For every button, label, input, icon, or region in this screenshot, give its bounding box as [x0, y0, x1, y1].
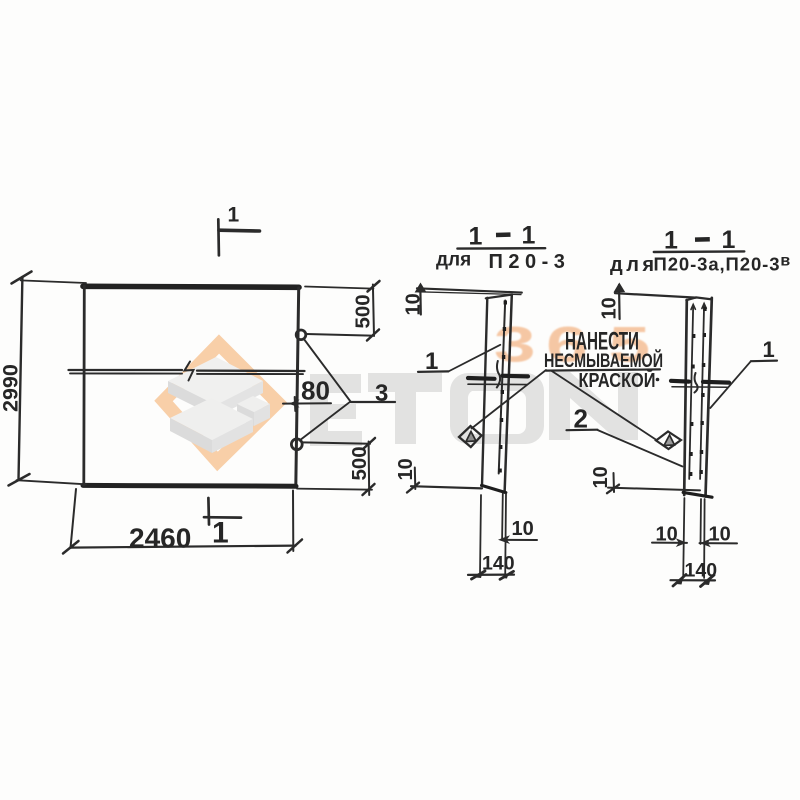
dim 500 bottom vertical dim line [368, 442, 371, 496]
dim 2990 vertical line [19, 277, 23, 480]
svg-text:для: для [436, 250, 471, 271]
strip bottom cap [482, 485, 506, 492]
loop level line top [307, 334, 372, 336]
logo inner bottom slab [170, 398, 253, 440]
right section texts [664, 227, 678, 255]
dim 10 line (middle bottom) [503, 539, 537, 541]
svg-text:1: 1 [664, 227, 678, 255]
middle section texts [469, 223, 483, 251]
lifting loop bottom [291, 439, 302, 450]
svg-text:80: 80 [301, 376, 330, 406]
bottom ext: inner line extended [501, 494, 504, 539]
inner rebar line B right [700, 304, 704, 479]
svg-text:1: 1 [522, 222, 536, 250]
svg-text:2990: 2990 [0, 364, 23, 412]
label 1 right underline [751, 360, 777, 363]
svg-text:1: 1 [425, 348, 438, 375]
joint mid thin line [468, 383, 527, 385]
svg-text:1: 1 [722, 226, 736, 254]
svg-text:П20-3: П20-3 [489, 251, 571, 273]
logo inner mid block [237, 396, 270, 412]
watermark 365 [0, 0, 1, 1]
top ext line right [615, 293, 696, 297]
strip left edge right section [684, 300, 687, 495]
panel outline top edge [83, 286, 299, 287]
text underline (nanesti block) [546, 369, 660, 370]
loop leader lines to label 3 [300, 339, 351, 441]
dim 500 bottom: loop level line [303, 442, 371, 443]
bottom-left vertical 10 line right [613, 473, 616, 492]
svg-text:140: 140 [482, 553, 515, 575]
joint right: left thick bar [671, 379, 689, 384]
strip bottom cap right [683, 492, 712, 497]
dim 500 top ticks [368, 281, 380, 292]
svg-text:1: 1 [763, 337, 775, 362]
bottom ext: right strip left edge extended [683, 498, 684, 578]
strip right outer edge [505, 295, 512, 492]
svg-text:10: 10 [709, 524, 731, 546]
inner rebar line A right [689, 305, 693, 479]
lifting loop top [296, 330, 306, 340]
label 1 left leader [448, 345, 500, 372]
strip right edge right section [706, 298, 712, 497]
bottom-left ext line middle [411, 486, 482, 488]
rebar dots right strip [689, 307, 707, 476]
watermark logo diamond [164, 344, 278, 462]
bottom ext: strip right edge extended [504, 494, 507, 576]
svg-text:П20-3а,П20-3в: П20-3а,П20-3в [654, 253, 792, 275]
svg-text:10: 10 [403, 293, 425, 315]
panel outline right edge [296, 288, 299, 486]
strip top cap [486, 295, 512, 299]
bottom-left vertical 10 line [414, 468, 417, 490]
joint right thin line [672, 386, 728, 388]
dim 500 bottom ticks [363, 438, 375, 449]
dim 500 top: extension of top edge [305, 287, 374, 289]
label 2 underline [567, 429, 598, 432]
dim 500 top: vertical dim line [373, 285, 374, 337]
dim 140 line right [671, 579, 716, 581]
title underline middle [457, 247, 545, 250]
label 2 leader [598, 430, 683, 467]
svg-text:10: 10 [590, 466, 612, 488]
bottom ext: strip left edge extended [480, 495, 481, 575]
joint mid squiggle [497, 361, 500, 388]
section mark bottom [207, 498, 210, 525]
svg-text:500: 500 [352, 294, 375, 328]
rebar top hooks [691, 305, 695, 310]
dim 2990 ticks [12, 272, 32, 284]
dim 10 right line (right bottom) [700, 542, 738, 544]
strip inner rebar line [499, 301, 506, 474]
strip left edge [482, 298, 487, 486]
panel outline left edge [82, 286, 85, 485]
dim 2990 extension lines [21, 280, 86, 283]
strip top cap right [686, 297, 712, 300]
svg-text:2: 2 [574, 404, 588, 434]
svg-text:для: для [610, 254, 658, 276]
svg-text:10: 10 [395, 458, 417, 480]
rebar dots middle strip [498, 301, 507, 473]
title underline right [654, 250, 745, 253]
dim 140 line middle [468, 573, 514, 576]
diamond mark left [459, 426, 482, 447]
watermark ETON letters [310, 372, 638, 446]
dim 2460 line [70, 546, 296, 548]
svg-text:2460: 2460 [129, 523, 191, 554]
svg-text:140: 140 [685, 560, 718, 582]
bottom-left ext line right section [608, 488, 700, 491]
top extension line middle [417, 288, 522, 292]
svg-text:10: 10 [599, 297, 621, 319]
leader to left diamond [472, 370, 547, 429]
joint mid: left thick bar [468, 376, 495, 381]
diamond mark right [656, 432, 681, 450]
joint right squiggle [695, 373, 698, 393]
svg-text:1: 1 [228, 204, 240, 227]
dim 10 left line (right bottom) [652, 542, 687, 544]
leader to right diamond [551, 371, 657, 441]
joint right: right thick bar [703, 380, 729, 385]
label 1 right leader [710, 361, 751, 408]
dim 80 [294, 397, 297, 411]
joint break zigzag [185, 362, 194, 381]
svg-text:500: 500 [348, 446, 371, 480]
logo inner top slab [168, 357, 263, 405]
svg-text:1: 1 [212, 517, 229, 550]
bottom ext: right strip right edge extended [703, 499, 706, 578]
bottom edge extension right [297, 489, 372, 490]
dim 2460 extension lines [71, 489, 77, 548]
label 1 left underline [418, 370, 448, 373]
svg-text:10: 10 [512, 518, 534, 540]
section mark top [217, 219, 220, 255]
title dash right [695, 237, 710, 242]
svg-text:1: 1 [469, 223, 483, 251]
svg-text:КРАСКОЙ: КРАСКОЙ [579, 368, 656, 392]
joint line double [69, 370, 305, 371]
title dash middle [496, 232, 511, 237]
panel outline bottom edge [83, 483, 296, 489]
top tick right [618, 285, 621, 319]
svg-text:3: 3 [375, 380, 388, 407]
plan view texts [0, 204, 388, 554]
bottom ext: right strip inner line extended [700, 499, 703, 544]
dim 2460 ticks [63, 541, 79, 554]
joint mid: right thick bar [503, 374, 529, 379]
top tick middle [419, 286, 422, 315]
svg-text:10: 10 [656, 524, 678, 546]
